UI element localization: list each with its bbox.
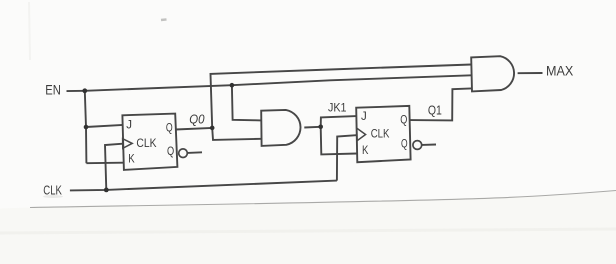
wire to J input FF1	[321, 116, 357, 127]
svg-text:EN: EN	[45, 83, 61, 98]
svg-text:CLK: CLK	[371, 127, 390, 141]
svg-text:Q: Q	[167, 146, 174, 158]
svg-text:CLK: CLK	[136, 136, 156, 150]
svg-text:Q: Q	[166, 123, 173, 135]
wire CLK bus	[70, 181, 337, 191]
svg-text:CLK: CLK	[43, 182, 62, 197]
wire J input FF0	[86, 125, 123, 127]
wire EN horizontal line	[67, 75, 472, 91]
junction dot J branch node	[84, 125, 89, 130]
wire Q1 output of FF1 to AND2	[410, 88, 471, 120]
wire Q0 output of FF0	[176, 128, 213, 130]
inversion bubble on notQ of U1	[179, 149, 188, 158]
AND gate G2 (MAX output)	[471, 56, 514, 91]
wire CLK riser to FF1	[337, 135, 356, 180]
junction dot node Q0	[210, 126, 215, 131]
clock edge triangle JK1	[357, 128, 366, 141]
wire FF0 notQ stub	[188, 151, 203, 154]
svg-text:Q: Q	[400, 114, 407, 126]
flip-flop U1 body (JK0)	[122, 114, 177, 170]
wire EN drop to AND1 upper input	[232, 85, 261, 120]
svg-text:K: K	[128, 154, 135, 166]
wire K input FF0	[86, 162, 123, 165]
svg-text:Q0: Q0	[189, 112, 204, 126]
svg-text:J: J	[126, 120, 132, 132]
wire Q0 riser to top line	[211, 65, 472, 128]
wire AND1 output	[304, 126, 320, 129]
wire EN vertical branch down to J/K	[85, 91, 87, 163]
junction dot CLK bus	[104, 188, 109, 193]
junction dot on EN line at x=230	[230, 83, 235, 88]
wire CLK input FF0	[105, 144, 123, 190]
junction dot AND1 output node	[318, 125, 323, 130]
wire FF1 notQ stub	[422, 144, 436, 146]
svg-text:Q1: Q1	[428, 104, 442, 118]
svg-text:J: J	[361, 111, 367, 123]
junction dot on EN line at x=85	[82, 88, 87, 93]
svg-text:Q: Q	[401, 138, 408, 150]
wire to K input FF1	[321, 127, 358, 155]
svg-text:K: K	[362, 145, 369, 157]
wire MAX output	[518, 72, 543, 74]
flip-flop JK1 body	[356, 106, 410, 162]
wire Q0 drop to AND1 lower input	[212, 128, 261, 140]
clock edge triangle U1	[123, 139, 133, 149]
svg-text:JK1: JK1	[328, 103, 347, 115]
inversion bubble on notQ of JK1	[413, 141, 422, 150]
AND gate G1 (EN and Q0)	[261, 110, 300, 146]
svg-text:MAX: MAX	[546, 63, 573, 78]
